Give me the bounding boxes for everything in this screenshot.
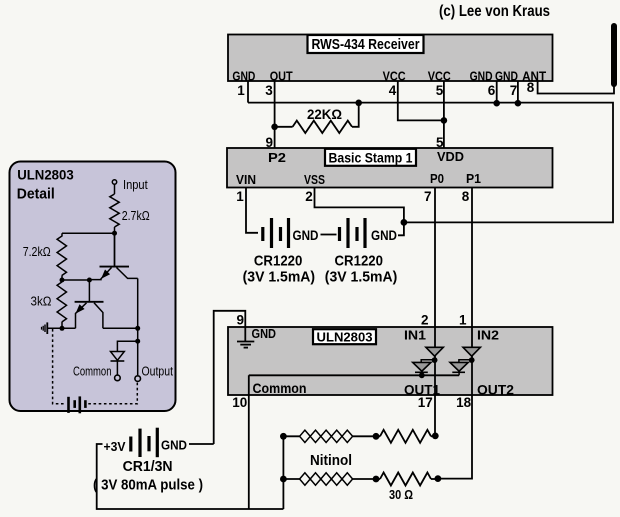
node GND junction xyxy=(401,219,408,226)
wire row1 lead xyxy=(283,435,299,437)
svg-text:Basic Stamp 1: Basic Stamp 1 xyxy=(329,150,413,166)
darlington driver B1 triangle xyxy=(413,362,431,371)
battery B2 CR1220 xyxy=(340,218,366,248)
darlington driver A2 triangle xyxy=(463,347,480,356)
svg-text:( 3V 80mA pulse ): ( 3V 80mA pulse ) xyxy=(93,478,203,494)
svg-text:ULN2803: ULN2803 xyxy=(17,168,74,183)
wire 2.7k to node A xyxy=(114,227,116,267)
wire B3 GND lead xyxy=(189,443,214,445)
wire pin8 ANT to antenna xyxy=(538,81,614,94)
svg-text:(c) Lee von Kraus: (c) Lee von Kraus xyxy=(439,3,550,20)
battery B1 CR1220 xyxy=(263,218,289,248)
battery B3 CR1/3N xyxy=(131,428,158,458)
svg-text:CR1220: CR1220 xyxy=(254,253,303,270)
svg-text:ULN2803: ULN2803 xyxy=(317,330,373,345)
node row2 middle xyxy=(373,476,380,483)
node output diode junction xyxy=(135,339,140,344)
resistor R 30ohm row2 zigzag xyxy=(380,473,431,486)
svg-text:VDD: VDD xyxy=(437,149,464,164)
transistor Q1 xyxy=(89,233,137,279)
svg-text:OUT2: OUT2 xyxy=(477,382,514,398)
svg-text:P0: P0 xyxy=(430,171,444,186)
svg-text:GND: GND xyxy=(495,69,518,84)
wire row1 middle xyxy=(353,435,380,437)
wire nitinol left riser xyxy=(282,436,284,509)
resistor 7.2k xyxy=(57,233,66,275)
wire common rail inside U3 xyxy=(249,374,459,376)
svg-text:VIN: VIN xyxy=(236,172,256,187)
wire common pin10 xyxy=(248,375,250,509)
dashed wire battery to Output xyxy=(88,382,137,404)
wire 22K left lead xyxy=(275,126,293,128)
diode D1 xyxy=(111,352,125,361)
svg-text:8: 8 xyxy=(527,80,535,95)
wire row2 lead xyxy=(283,478,299,480)
svg-text:Detail: Detail xyxy=(17,186,55,203)
transistor Q2 xyxy=(75,280,104,328)
wire A2 to B2 stage xyxy=(459,360,472,363)
svg-text:P1: P1 xyxy=(466,171,481,186)
dashed wire ground to battery xyxy=(53,329,66,404)
svg-text:Common: Common xyxy=(73,364,112,379)
node nitinol row2 left xyxy=(280,476,287,483)
svg-text:OUT: OUT xyxy=(270,69,293,84)
ground symbol detail xyxy=(42,322,48,334)
terminal Common xyxy=(115,375,121,381)
svg-text:VSS: VSS xyxy=(304,172,325,187)
svg-text:GND: GND xyxy=(161,438,187,453)
darlington driver A1 triangle xyxy=(426,347,443,356)
node T2 base xyxy=(87,278,92,283)
wire output vertical xyxy=(137,278,139,375)
wire VIN to battery B1 xyxy=(246,188,258,233)
node pin7 GND xyxy=(515,100,522,107)
svg-text:CR1/3N: CR1/3N xyxy=(123,459,173,475)
wire P1 to IN2/OUT2 xyxy=(438,188,472,479)
svg-text:GND: GND xyxy=(293,227,319,243)
svg-text:GND: GND xyxy=(371,227,397,243)
wire B2 emitter to common xyxy=(458,371,460,375)
svg-text:RWS-434 Receiver: RWS-434 Receiver xyxy=(312,37,420,53)
svg-text:GND: GND xyxy=(252,326,277,341)
svg-text:3: 3 xyxy=(265,83,273,98)
wire input lead xyxy=(114,184,116,194)
wire collectors to output rail xyxy=(103,327,138,329)
svg-text:3kΩ: 3kΩ xyxy=(31,295,52,309)
svg-text:4: 4 xyxy=(389,83,397,98)
U2 name label box Basic Stamp 1 xyxy=(325,149,416,166)
IC U2 Basic Stamp 1 body xyxy=(227,148,553,188)
nitinol element row2 xyxy=(300,473,353,485)
wire pin7 GND stub xyxy=(517,81,519,103)
wire node A to 7.2k xyxy=(62,232,115,234)
svg-text:(3V 1.5mA): (3V 1.5mA) xyxy=(243,270,316,286)
svg-text:IN1: IN1 xyxy=(404,328,426,343)
IC U3 ULN2803 body xyxy=(228,327,553,395)
wire +3V hook down to bottom rail xyxy=(97,444,284,509)
node pin6 GND xyxy=(493,100,500,107)
svg-text:18: 18 xyxy=(456,395,472,410)
wire row2 right lead xyxy=(431,478,438,480)
svg-text:VCC: VCC xyxy=(383,69,407,84)
wire VSS to GND node xyxy=(315,188,404,223)
svg-text:5: 5 xyxy=(436,83,444,98)
svg-text:1: 1 xyxy=(237,83,245,98)
node VCC junction xyxy=(441,117,448,124)
node 3k ground xyxy=(60,326,65,331)
svg-text:7: 7 xyxy=(424,189,432,204)
svg-text:P2: P2 xyxy=(268,150,286,165)
antenna xyxy=(611,26,617,84)
node A1 emitter xyxy=(432,357,438,363)
wire B2 GND hook to GND node xyxy=(398,222,404,235)
ground line xyxy=(47,327,75,329)
svg-text:6: 6 xyxy=(488,83,496,98)
nitinol element row1 xyxy=(300,430,353,442)
wire A1 to B1 stage xyxy=(421,360,434,363)
svg-text:5: 5 xyxy=(436,135,444,150)
node row1 middle xyxy=(373,433,380,440)
node output collector junction xyxy=(135,326,140,331)
svg-text:1: 1 xyxy=(459,313,467,328)
wire pin6 GND stub xyxy=(496,81,498,103)
resistor 3k xyxy=(57,282,66,322)
svg-text:Input: Input xyxy=(123,178,148,192)
node B1 common xyxy=(419,372,425,378)
terminal Input xyxy=(112,180,116,184)
wire pin4 VCC stub xyxy=(398,81,444,120)
wire row2 middle xyxy=(353,478,380,480)
wire pin5 VCC down to VDD xyxy=(443,81,445,148)
wire diode branch xyxy=(117,341,137,351)
wire GND rail xyxy=(248,103,613,223)
svg-text:1: 1 xyxy=(236,189,244,204)
ULN2803 Detail box xyxy=(10,162,176,412)
node OUT/22K junction xyxy=(271,124,278,131)
node A2 emitter xyxy=(469,357,475,363)
svg-text:(3V 1.5mA): (3V 1.5mA) xyxy=(325,270,398,286)
svg-text:2.7kΩ: 2.7kΩ xyxy=(122,209,150,223)
svg-text:2: 2 xyxy=(421,313,429,328)
svg-text:30 Ω: 30 Ω xyxy=(389,488,413,502)
wire diode to Common terminal xyxy=(116,361,118,375)
svg-text:IN2: IN2 xyxy=(477,328,499,343)
node row1 to OUT1 xyxy=(432,433,439,440)
svg-text:22KΩ: 22KΩ xyxy=(307,106,342,122)
node row2 to OUT2 xyxy=(435,475,442,482)
B1 emitter bar xyxy=(415,371,428,373)
svg-text:Nitinol: Nitinol xyxy=(310,453,352,469)
wire B1 emitter to common xyxy=(421,371,423,375)
wire B1 to B2 xyxy=(321,234,337,236)
U3 name label box ULN2803 xyxy=(313,329,376,344)
wire pin1 GND stub xyxy=(247,81,249,103)
wire node to T2 base xyxy=(62,279,89,281)
svg-text:2: 2 xyxy=(305,189,313,204)
resistor 22K xyxy=(293,121,352,133)
resistor row1 zigzag xyxy=(380,430,431,443)
IC U1 RWS-434 Receiver body xyxy=(228,35,553,82)
wire 3k to ground line xyxy=(61,322,63,328)
node B junction 7.2k/3k xyxy=(60,278,65,283)
wire row1 right lead xyxy=(431,435,435,437)
node nitinol row1 left xyxy=(280,433,287,440)
U1 name label box RWS-434 Receiver xyxy=(308,35,424,53)
ground symbol at pin9 xyxy=(237,327,254,348)
svg-text:7: 7 xyxy=(510,83,518,98)
svg-text:GND: GND xyxy=(470,69,493,84)
wire battery GND up to U3 pin9 xyxy=(214,311,246,444)
diode D1 cathode bar xyxy=(111,360,125,362)
svg-text:10: 10 xyxy=(232,395,247,410)
svg-text:7.2kΩ: 7.2kΩ xyxy=(23,245,51,259)
darlington driver B2 triangle xyxy=(450,362,468,371)
svg-text:9: 9 xyxy=(237,313,245,328)
svg-text:+3V: +3V xyxy=(104,439,126,454)
svg-text:GND: GND xyxy=(232,69,255,84)
terminal Output xyxy=(135,376,141,382)
node 22K to GND rail xyxy=(355,100,362,107)
battery B4 detail xyxy=(69,396,86,413)
wire 22K right lead up to GND rail xyxy=(352,103,359,127)
wire pin3 OUT down to P2 xyxy=(274,81,276,148)
svg-text:Output: Output xyxy=(142,364,174,379)
wire P0 to IN1/OUT1 xyxy=(434,188,436,436)
svg-text:Common: Common xyxy=(253,380,307,396)
resistor 2.7k xyxy=(110,194,119,227)
svg-text:8: 8 xyxy=(462,189,470,204)
svg-text:CR1220: CR1220 xyxy=(335,253,384,270)
svg-text:VCC: VCC xyxy=(428,69,452,84)
node A base T1 xyxy=(112,231,117,236)
svg-text:17: 17 xyxy=(418,395,433,410)
B2 emitter bar xyxy=(452,371,465,373)
svg-text:9: 9 xyxy=(266,135,274,150)
